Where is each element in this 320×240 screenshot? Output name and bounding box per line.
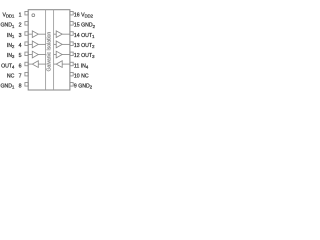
svg-text:IN2: IN2 <box>7 43 15 49</box>
svg-text:OUT4: OUT4 <box>1 63 15 69</box>
isolation barrier right line <box>53 10 55 90</box>
wire channel1 right <box>62 33 70 35</box>
wire channel4 left <box>28 63 32 65</box>
buffer channel1 right <box>56 31 62 38</box>
wire channel2 mid-right <box>54 43 57 45</box>
pin 4 box <box>25 42 28 46</box>
pin 9 box <box>70 83 73 87</box>
svg-text:11 IN4: 11 IN4 <box>74 63 89 69</box>
pin 1 indicator dot <box>32 14 35 17</box>
svg-text:15 GND2: 15 GND2 <box>74 23 96 29</box>
isolation barrier left line <box>45 10 47 90</box>
svg-text:4: 4 <box>19 43 22 49</box>
pin 15 box <box>70 22 73 26</box>
pin 13 box <box>70 42 73 46</box>
pin 10 box <box>70 72 73 76</box>
wire channel2 mid-left <box>38 43 45 45</box>
svg-text:6: 6 <box>19 63 22 69</box>
wire channel4 mid-left <box>38 63 45 65</box>
svg-text:9 GND2: 9 GND2 <box>74 84 93 90</box>
buffer channel4 left (reverse) <box>32 61 38 68</box>
svg-text:IN1: IN1 <box>7 33 15 39</box>
pin 5 box <box>25 52 28 56</box>
wire channel3 mid-right <box>54 54 57 56</box>
svg-text:5: 5 <box>19 53 22 59</box>
pin 11 box <box>70 62 73 66</box>
pin 14 box <box>70 32 73 36</box>
svg-text:IN3: IN3 <box>7 53 15 59</box>
svg-text:8: 8 <box>19 84 22 90</box>
svg-text:3: 3 <box>19 33 22 39</box>
buffer channel3 left <box>32 51 38 58</box>
svg-text:1: 1 <box>19 13 22 19</box>
svg-text:NC: NC <box>7 73 15 79</box>
svg-text:14 OUT1: 14 OUT1 <box>74 33 95 39</box>
pin 16 box <box>70 11 73 15</box>
svg-text:13 OUT2: 13 OUT2 <box>74 43 95 49</box>
pin 1 box <box>25 11 28 15</box>
pin 3 box <box>25 32 28 36</box>
wire channel1 mid-right <box>54 33 57 35</box>
wire channel3 right <box>62 54 70 56</box>
buffer channel1 left <box>32 31 38 38</box>
svg-text:10 NC: 10 NC <box>74 73 89 79</box>
wire channel4 mid-right <box>54 63 57 65</box>
svg-text:Galvanic Isolation: Galvanic Isolation <box>46 32 52 72</box>
svg-text:GND1: GND1 <box>1 23 16 29</box>
svg-text:2: 2 <box>19 23 22 29</box>
wire channel4 right <box>62 63 70 65</box>
pin 12 box <box>70 52 73 56</box>
pin 7 box <box>25 72 28 76</box>
IC body U1 <box>28 10 70 90</box>
wire channel1 mid-left <box>38 33 45 35</box>
wire channel1 left <box>28 33 32 35</box>
svg-text:VDD1: VDD1 <box>3 13 16 19</box>
wire channel2 left <box>28 43 32 45</box>
wire channel2 right <box>62 43 70 45</box>
buffer channel2 right <box>56 41 62 48</box>
svg-text:GND1: GND1 <box>1 84 16 90</box>
pin 6 box <box>25 62 28 66</box>
buffer channel2 left <box>32 41 38 48</box>
pin 2 box <box>25 22 28 26</box>
buffer channel3 right <box>56 51 62 58</box>
wire channel3 mid-left <box>38 54 45 56</box>
buffer channel4 right (reverse) <box>56 61 62 68</box>
pin 8 box <box>25 83 28 87</box>
wire channel3 left <box>28 54 32 56</box>
svg-text:12 OUT3: 12 OUT3 <box>74 53 95 59</box>
svg-text:16 VDD2: 16 VDD2 <box>74 13 94 19</box>
svg-text:7: 7 <box>19 73 22 79</box>
